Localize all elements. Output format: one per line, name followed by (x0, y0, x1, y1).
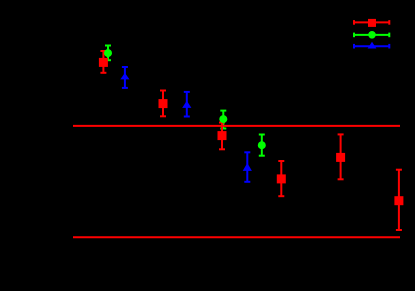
red point 3 error bar (219, 123, 225, 150)
blue point 1 error bar (122, 67, 128, 88)
green point 3 error bar (259, 135, 265, 156)
red point 4 error bar (278, 161, 284, 196)
lower red horizontal line (73, 236, 400, 238)
red square marker 2 (159, 99, 168, 108)
green circle marker 3 (258, 141, 266, 149)
blue point 2 error bar (184, 92, 190, 117)
blue triangle marker 3 (243, 163, 252, 171)
red square marker 4 (277, 174, 286, 183)
legend entry green circles (354, 31, 389, 39)
red point 1 error bar (100, 51, 106, 73)
red square marker 3 (218, 131, 227, 140)
blue triangle marker 1 (120, 73, 129, 80)
red square marker 5 (336, 153, 345, 162)
red square marker 6 (394, 196, 403, 205)
green circle marker 1 (104, 49, 112, 57)
red point 5 error bar (338, 134, 344, 179)
green point 2 error bar (220, 111, 226, 129)
red square marker 1 (99, 58, 108, 67)
blue point 3 error bar (244, 152, 250, 182)
red point 2 error bar (160, 91, 166, 117)
legend entry blue triangles (354, 42, 389, 49)
green circle marker 2 (219, 115, 227, 123)
blue triangle marker 2 (182, 101, 191, 108)
legend entry red squares (354, 19, 389, 27)
red point 6 error bar (396, 170, 402, 230)
green point 1 error bar (105, 46, 111, 61)
upper red horizontal line (73, 125, 400, 127)
